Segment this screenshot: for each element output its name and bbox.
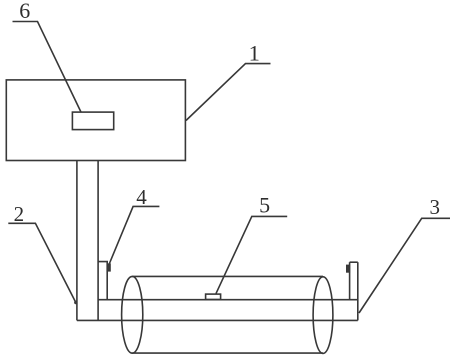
bracket 4 bbox=[98, 262, 110, 300]
svg-text:4: 4 bbox=[136, 185, 147, 209]
svg-text:3: 3 bbox=[429, 195, 440, 219]
sensor tab on bar (target of 5) bbox=[206, 294, 221, 299]
housing box 1 bbox=[6, 80, 185, 161]
bracket 3 bbox=[347, 262, 358, 300]
label 5 bbox=[216, 192, 287, 293]
label 1 bbox=[186, 40, 271, 120]
label 4 bbox=[109, 185, 159, 265]
label 6 bbox=[13, 0, 82, 112]
label 2 bbox=[8, 202, 77, 304]
svg-text:6: 6 bbox=[19, 0, 30, 23]
label 3 bbox=[359, 195, 450, 313]
cylinder roller 5 bbox=[122, 276, 333, 353]
svg-text:5: 5 bbox=[259, 192, 270, 217]
support post bbox=[77, 161, 98, 321]
display window 6 bbox=[72, 112, 113, 130]
svg-text:1: 1 bbox=[249, 40, 260, 65]
base bar 2 bbox=[77, 262, 358, 320]
